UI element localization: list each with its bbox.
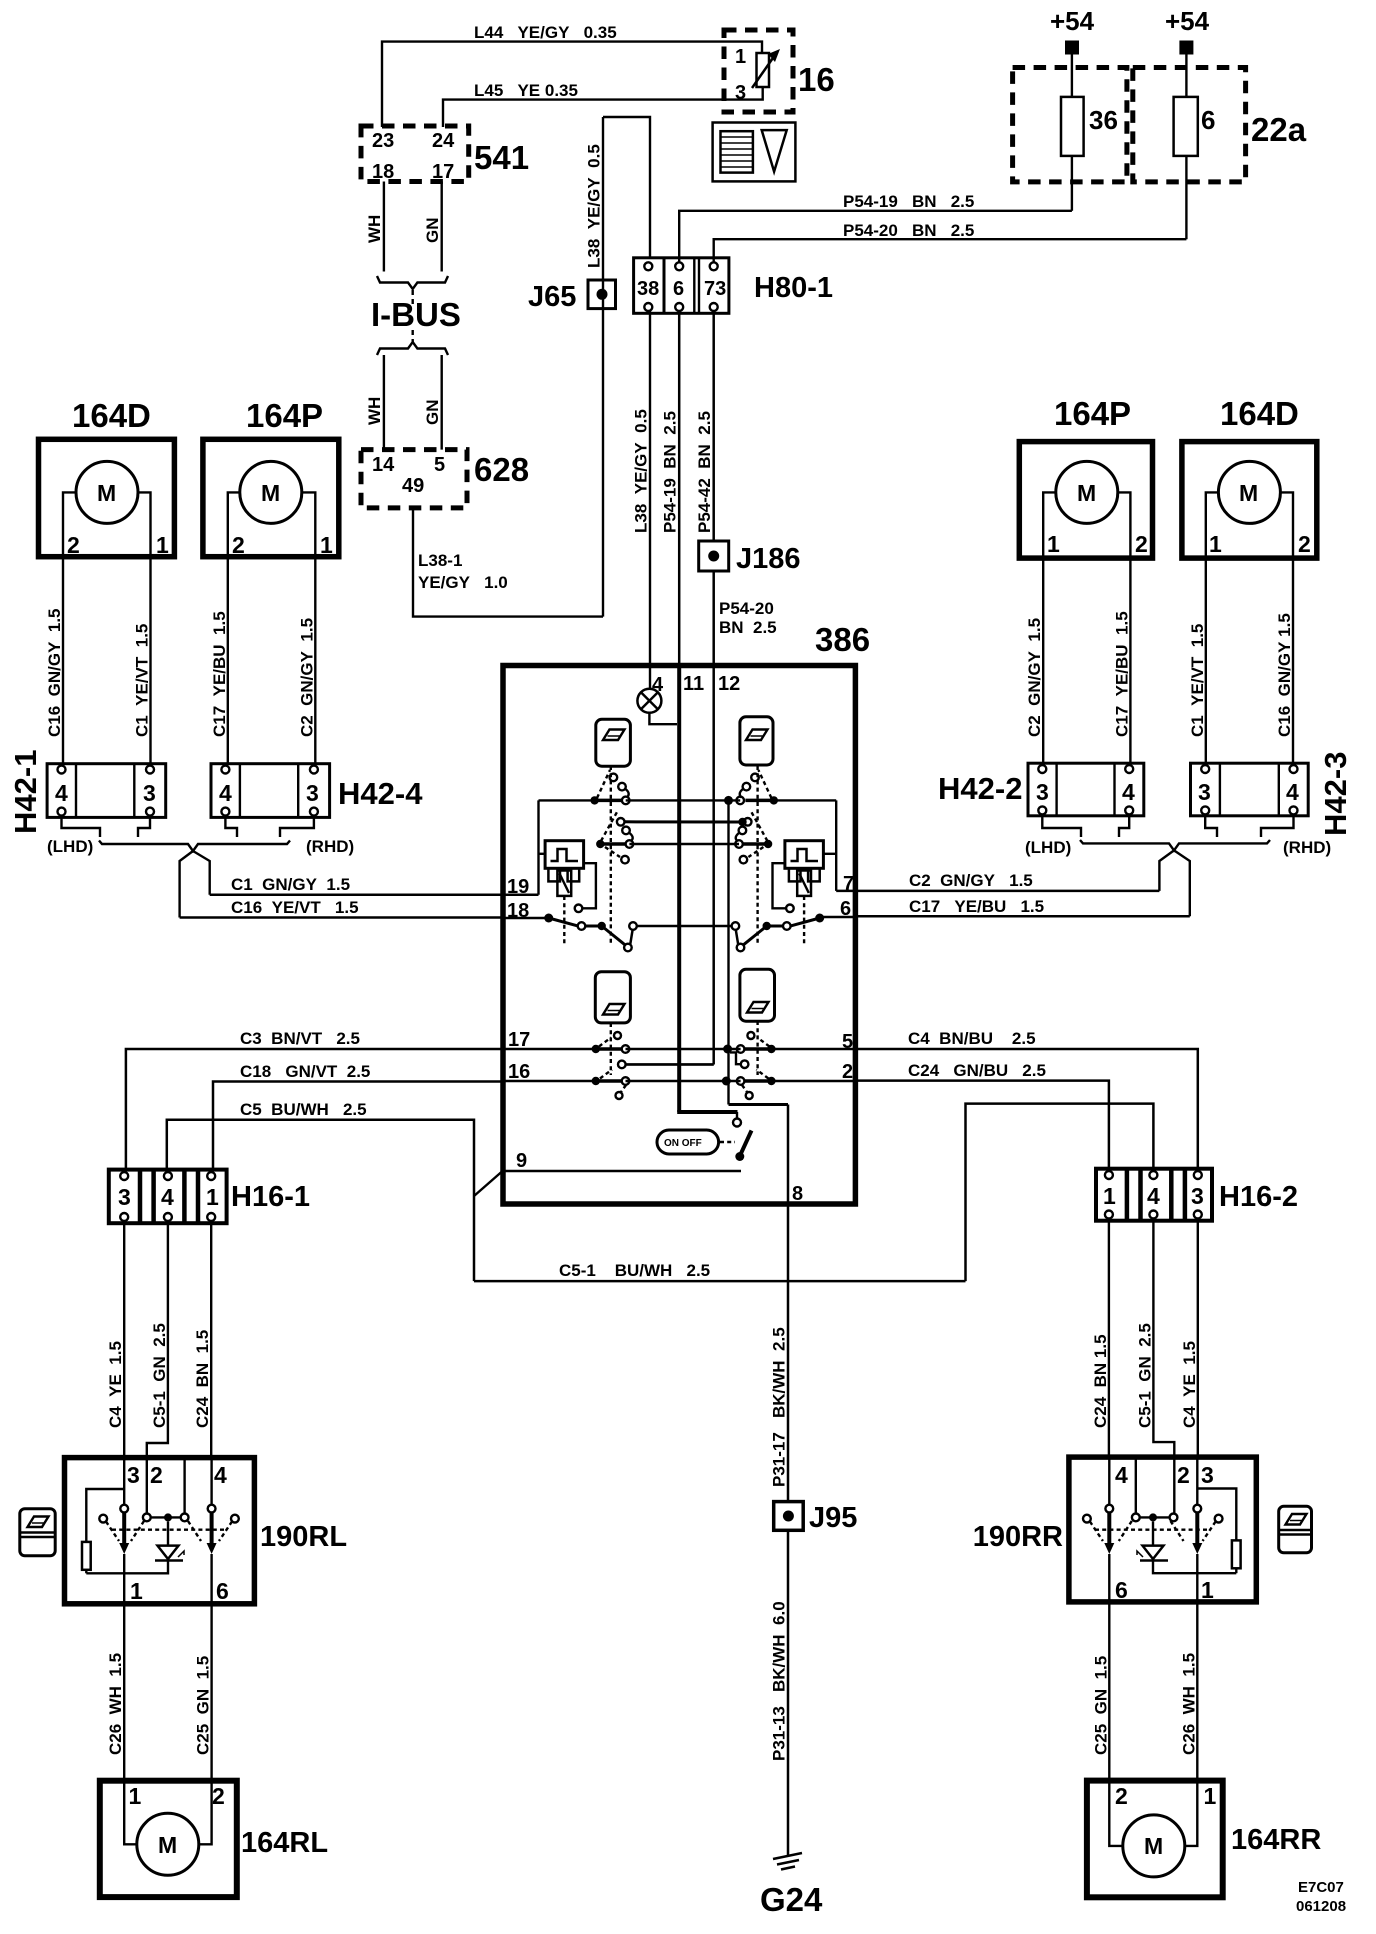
svg-text:8: 8 (792, 1183, 803, 1205)
switch cluster upper-right (passenger window up/down) (735, 766, 778, 946)
wire stubs under H42-1 / H42-4 (LHD/RHD merge) (47, 816, 354, 918)
svg-text:1: 1 (130, 1578, 143, 1604)
wire C5-1 GN 2.5 (H16-2 pin4 down) (1135, 1221, 1174, 1457)
svg-text:17: 17 (432, 161, 454, 183)
svg-text:M: M (1144, 1833, 1163, 1859)
svg-text:16: 16 (508, 1061, 530, 1083)
wire stubs under H42-2 / H42-3 (LHD/RHD merge right) (1025, 814, 1331, 916)
wire C5 BU/WH 2.5 (167, 1100, 474, 1281)
wire pin19 link (left relay feed) (505, 800, 595, 894)
svg-text:11: 11 (683, 673, 704, 695)
svg-text:17: 17 (508, 1029, 530, 1051)
wire C16 GN/GY 1.5 (164D right pin2) (1275, 558, 1294, 764)
relay right (one-touch module) (785, 841, 824, 944)
wire P31-17 BK/WH 2.5 (386 pin8 to J95) (770, 1202, 789, 1502)
switch cluster lower-right (rear-right window) (730, 1021, 776, 1099)
wire P54-20 BN 2.5 (J186 to 386 pin12) (714, 571, 777, 666)
junction J95 (774, 1502, 858, 1534)
svg-text:C25 GN 1.5: C25 GN 1.5 (194, 1656, 213, 1755)
fuse 6 (1174, 97, 1216, 239)
svg-text:C1 YE/VT 1.5: C1 YE/VT 1.5 (1188, 624, 1207, 737)
svg-text:C25 GN 1.5: C25 GN 1.5 (1091, 1656, 1110, 1755)
svg-text:C2 GN/GY 1.5: C2 GN/GY 1.5 (297, 618, 316, 737)
svg-text:P54-19 BN 2.5: P54-19 BN 2.5 (843, 192, 974, 211)
svg-text:P54-20: P54-20 (719, 599, 774, 618)
svg-text:3: 3 (1201, 1462, 1214, 1488)
svg-text:2: 2 (1177, 1462, 1190, 1488)
svg-text:C16 YE/VT 1.5: C16 YE/VT 1.5 (231, 898, 359, 917)
ON/OFF switch (657, 1112, 752, 1161)
svg-text:C5-1 GN 2.5: C5-1 GN 2.5 (1135, 1323, 1154, 1428)
connector H80-1 (634, 258, 833, 314)
svg-text:J95: J95 (809, 1502, 857, 1534)
svg-text:190RR: 190RR (973, 1521, 1063, 1553)
wire P54-19 BN 2.5 (679, 192, 1072, 262)
svg-text:4: 4 (161, 1184, 174, 1210)
wire C1 YE/VT 1.5 (164D pin1) (133, 557, 152, 765)
svg-text:(RHD): (RHD) (306, 837, 354, 856)
wire C17 YE/BU 1.5 (to 386 pin6) (856, 897, 1190, 916)
wire C2 GN/GY 1.5 (164P pin1) (297, 557, 316, 765)
svg-text:628: 628 (474, 451, 529, 488)
svg-text:164D: 164D (72, 397, 151, 434)
relay left (one-touch module) (545, 841, 584, 944)
svg-text:6: 6 (1201, 105, 1215, 135)
svg-text:190RL: 190RL (260, 1521, 347, 1553)
svg-text:H16-1: H16-1 (231, 1181, 310, 1213)
wire C1 GN/GY 1.5 (to 386 pin19) (210, 875, 505, 895)
wire row pin16-pin2 (505, 1077, 856, 1086)
window symbol upper-right (740, 717, 773, 765)
svg-text:E7C07: E7C07 (1298, 1879, 1344, 1896)
wire pin16 contact link (626, 1063, 714, 1065)
wire pin12 feed (626, 666, 714, 1065)
svg-text:C17 YE/BU 1.5: C17 YE/BU 1.5 (1112, 611, 1131, 737)
svg-text:4: 4 (219, 780, 232, 806)
wire C5-1 BU/WH 2.5 (474, 1104, 1153, 1282)
svg-text:H80-1: H80-1 (754, 272, 833, 304)
switch cluster lower-left (rear-left window) (592, 1023, 630, 1099)
svg-text:6: 6 (673, 278, 684, 300)
svg-text:H42-4: H42-4 (338, 776, 423, 811)
window symbol lower-left (595, 972, 630, 1023)
svg-text:9: 9 (516, 1150, 527, 1172)
svg-text:2: 2 (1135, 531, 1148, 557)
svg-text:BN 2.5: BN 2.5 (719, 618, 777, 637)
motor 164RR (1087, 1781, 1321, 1898)
svg-text:J65: J65 (528, 281, 576, 313)
svg-text:G24: G24 (760, 1881, 823, 1918)
+54 feed right (1165, 6, 1210, 97)
wire crossover row (y800) (626, 796, 741, 805)
svg-text:1: 1 (206, 1184, 219, 1210)
rear-left switch 190RL (65, 1458, 348, 1604)
190RR lamp (LED + resistor) (1137, 1521, 1236, 1573)
svg-text:1: 1 (1204, 1783, 1217, 1809)
rear-right switch 190RR (973, 1457, 1257, 1603)
wire crossover row (y822) (625, 818, 747, 826)
190RL interior contacts (99, 1458, 239, 1554)
svg-text:386: 386 (815, 621, 870, 658)
svg-text:2: 2 (232, 532, 245, 558)
svg-text:4: 4 (214, 1462, 227, 1488)
wire C4 YE 1.5 (H16-2 pin3 down) (1180, 1221, 1199, 1457)
svg-text:P54-19 BN 2.5: P54-19 BN 2.5 (661, 411, 680, 533)
svg-text:2: 2 (150, 1462, 163, 1488)
svg-text:6: 6 (216, 1578, 229, 1604)
changeover lever right (pin 6) (732, 914, 856, 952)
wire GN (541 pin17 down) (423, 182, 442, 272)
connector 16 (dashed box) (724, 30, 835, 112)
wire common riser (to pin 8) (729, 800, 789, 1202)
svg-text:5: 5 (434, 454, 445, 476)
svg-text:164P: 164P (1054, 395, 1131, 432)
motor 164RL (100, 1781, 328, 1897)
svg-text:6: 6 (1115, 1577, 1128, 1603)
svg-text:38: 38 (637, 278, 659, 300)
svg-text:541: 541 (474, 139, 529, 176)
svg-text:C3 BN/VT 2.5: C3 BN/VT 2.5 (240, 1029, 360, 1048)
window symbol upper-left (596, 719, 631, 766)
svg-text:3: 3 (1198, 779, 1211, 805)
svg-text:1: 1 (1201, 1577, 1214, 1603)
junction J65 (528, 280, 616, 313)
wire P54-42 (H80-1 pin73 to J186) (695, 311, 714, 541)
svg-text:C5-1 BU/WH 2.5: C5-1 BU/WH 2.5 (559, 1261, 710, 1280)
svg-text:1: 1 (129, 1783, 142, 1809)
svg-text:C24 GN/BU 2.5: C24 GN/BU 2.5 (908, 1061, 1046, 1080)
svg-text:P31-13 BK/WH 6.0: P31-13 BK/WH 6.0 (770, 1601, 789, 1761)
wire relay-left contact link (575, 863, 596, 912)
svg-text:4: 4 (1286, 779, 1299, 805)
svg-text:C17 YE/BU 1.5: C17 YE/BU 1.5 (210, 611, 229, 737)
wire row pin17-pin5 (505, 1045, 856, 1054)
motor 164D (right) (1182, 395, 1317, 558)
wire relay-right contact link (773, 863, 794, 912)
wire C24 GN/BU 2.5 (856, 1061, 1109, 1169)
wire C24 BN 1.5 (H16-2 pin1 down) (1091, 1221, 1110, 1457)
svg-text:24: 24 (432, 130, 455, 152)
svg-text:C16 GN/GY 1.5: C16 GN/GY 1.5 (45, 609, 64, 738)
wire P54-20 BN 2.5 (714, 221, 1187, 262)
wire C16 YE/VT 1.5 (to 386 pin18) (180, 898, 505, 918)
resistor (190RR) (1197, 1489, 1240, 1574)
svg-text:3: 3 (735, 82, 746, 104)
connector H42-1 (8, 750, 166, 834)
svg-text:L45 YE 0.35: L45 YE 0.35 (474, 81, 578, 100)
+54 feed left (1050, 6, 1095, 97)
wire C26 WH 1.5 (190RL pin1 to motor) (106, 1604, 125, 1781)
svg-text:C26 WH 1.5: C26 WH 1.5 (106, 1653, 125, 1755)
svg-text:GN: GN (423, 218, 442, 244)
wire C25 GN 1.5 (190RR pin6 to motor) (1091, 1602, 1110, 1781)
svg-text:1: 1 (156, 532, 169, 558)
wire C4 BN/BU 2.5 (856, 1029, 1198, 1169)
wire WH (541 pin18 down) (365, 182, 384, 272)
svg-text:(LHD): (LHD) (47, 837, 93, 856)
svg-text:ON OFF: ON OFF (664, 1138, 702, 1149)
svg-text:GN: GN (423, 400, 442, 426)
svg-text:C18 GN/VT 2.5: C18 GN/VT 2.5 (240, 1062, 370, 1081)
svg-text:C1 YE/VT 1.5: C1 YE/VT 1.5 (133, 624, 152, 737)
changeover lever left (pin 18) (505, 914, 637, 952)
svg-text:P31-17 BK/WH 2.5: P31-17 BK/WH 2.5 (770, 1327, 789, 1487)
svg-text:+54: +54 (1050, 6, 1095, 36)
svg-text:2: 2 (67, 532, 80, 558)
svg-text:1: 1 (1047, 531, 1060, 557)
wire C16 GN/GY 1.5 (164D pin2) (45, 557, 64, 765)
motor 164P (right pair) (1019, 395, 1152, 558)
wire C1 YE/VT 1.5 (164D right pin1) (1188, 558, 1207, 764)
wire pin9 row (505, 1170, 741, 1173)
svg-text:+54: +54 (1165, 6, 1210, 36)
window symbol (190RR) (1279, 1506, 1312, 1553)
wire (top link to pin 38) (603, 117, 650, 259)
junction J186 (699, 541, 801, 575)
wire L45 YE 0.35 (443, 81, 763, 127)
svg-text:3: 3 (127, 1462, 140, 1488)
svg-text:H42-3: H42-3 (1318, 752, 1353, 836)
I-BUS brace upper (377, 276, 448, 304)
svg-text:4: 4 (1122, 779, 1135, 805)
svg-text:14: 14 (372, 454, 395, 476)
svg-text:164P: 164P (246, 397, 323, 434)
svg-text:C17 YE/BU 1.5: C17 YE/BU 1.5 (909, 897, 1044, 916)
connector H42-3 (1191, 752, 1354, 836)
rheostat in 16 (752, 49, 780, 88)
wire C2 GN/GY 1.5 (164P right pin1) (1025, 558, 1044, 764)
svg-text:C24 BN 1.5: C24 BN 1.5 (1091, 1334, 1110, 1428)
svg-text:49: 49 (402, 475, 424, 497)
svg-text:P54-42 BN 2.5: P54-42 BN 2.5 (695, 411, 714, 533)
svg-text:3: 3 (1191, 1183, 1204, 1209)
svg-text:L44 YE/GY 0.35: L44 YE/GY 0.35 (474, 23, 617, 42)
svg-text:J186: J186 (736, 543, 801, 575)
svg-text:3: 3 (1036, 779, 1049, 805)
svg-text:M: M (1077, 480, 1096, 506)
drawing number (1296, 1879, 1346, 1915)
wire P54-19 (H80-1 pin6 to 386 pin11) (661, 311, 680, 666)
svg-text:(LHD): (LHD) (1025, 838, 1071, 857)
svg-text:H16-2: H16-2 (1219, 1181, 1298, 1213)
svg-text:C16 GN/GY 1.5: C16 GN/GY 1.5 (1275, 613, 1294, 737)
svg-text:C5-1 GN 2.5: C5-1 GN 2.5 (150, 1323, 169, 1428)
wire L38-1 YE/GY 1.0 (628 pin49 to J65 line) (413, 508, 603, 617)
svg-text:C4 YE 1.5: C4 YE 1.5 (1180, 1341, 1199, 1428)
svg-text:3: 3 (143, 780, 156, 806)
svg-text:2: 2 (212, 1783, 225, 1809)
svg-text:P54-20 BN 2.5: P54-20 BN 2.5 (843, 221, 974, 240)
svg-text:I-BUS: I-BUS (371, 296, 461, 333)
190RR pin6/pin1 stubs (1109, 1554, 1197, 1602)
wire L38 (H80-1 pin38 to 386 pin4) (632, 311, 651, 689)
connector 628 (dashed box) (361, 450, 529, 508)
svg-text:H42-1: H42-1 (8, 750, 43, 834)
svg-text:4: 4 (1147, 1183, 1160, 1209)
wire pin7 link (right relay feed) (774, 800, 856, 891)
svg-text:36: 36 (1089, 105, 1118, 135)
connector H42-4 (211, 764, 423, 818)
svg-text:C5 BU/WH 2.5: C5 BU/WH 2.5 (240, 1100, 367, 1119)
wire C5-1 GN 2.5 (H16-1 pin4 down) (147, 1223, 169, 1457)
switch unit 386 box (503, 621, 870, 1204)
wire C18 GN/VT 2.5 (213, 1062, 505, 1170)
motor 164D (front left) (39, 397, 175, 558)
wire WH (to 628 pin14) (365, 355, 384, 450)
190RL lamp (LED + resistor) (86, 1521, 184, 1573)
svg-text:1: 1 (1103, 1183, 1116, 1209)
svg-text:L38 YE/GY 0.5: L38 YE/GY 0.5 (632, 409, 651, 533)
svg-text:YE/GY 1.0: YE/GY 1.0 (418, 573, 508, 592)
wire C25 GN 1.5 (190RL pin6 to motor) (194, 1604, 213, 1781)
svg-text:C4 YE 1.5: C4 YE 1.5 (106, 1341, 125, 1428)
motor 164P (front passenger, left pair) (203, 397, 339, 558)
svg-text:2: 2 (1298, 531, 1311, 557)
svg-text:C24 BN 1.5: C24 BN 1.5 (193, 1330, 212, 1428)
svg-text:WH: WH (365, 215, 384, 243)
svg-text:M: M (261, 480, 280, 506)
wire C17 YE/BU 1.5 (164P right pin2) (1112, 558, 1131, 764)
svg-text:7: 7 (843, 873, 854, 895)
svg-text:73: 73 (704, 278, 726, 300)
wire pin9 tap (diagonal) (474, 1172, 502, 1197)
connector H16-1 (109, 1170, 310, 1224)
wire crossover row (y926) (637, 925, 732, 927)
190RL pin1/pin6 stubs (124, 1554, 211, 1604)
svg-text:061208: 061208 (1296, 1898, 1346, 1915)
wire L38 YE/GY 0.5 (vertical through J65) (585, 117, 604, 617)
svg-text:164D: 164D (1220, 395, 1299, 432)
svg-text:19: 19 (507, 876, 529, 898)
svg-text:2: 2 (842, 1061, 853, 1083)
switch cluster upper-left (driver window up/down) (590, 766, 633, 946)
svg-text:18: 18 (372, 161, 394, 183)
svg-text:1: 1 (320, 532, 333, 558)
wire C2 GN/GY 1.5 (to 386 pin7) (856, 871, 1159, 891)
I-BUS brace lower (377, 330, 448, 355)
svg-text:C2 GN/GY 1.5: C2 GN/GY 1.5 (909, 871, 1033, 890)
svg-text:C26 WH 1.5: C26 WH 1.5 (1179, 1653, 1198, 1755)
svg-text:WH: WH (365, 397, 384, 425)
wire crossover row (y844) (629, 843, 739, 845)
svg-text:2: 2 (1115, 1783, 1128, 1809)
svg-text:C1 GN/GY 1.5: C1 GN/GY 1.5 (231, 875, 350, 894)
svg-text:M: M (158, 1832, 177, 1858)
svg-text:22a: 22a (1251, 111, 1307, 148)
svg-text:C4 BN/BU 2.5: C4 BN/BU 2.5 (908, 1029, 1036, 1048)
svg-text:12: 12 (718, 673, 740, 695)
window lift symbol (legend) (713, 123, 796, 182)
illumination lamp (pin 4) (637, 689, 677, 724)
190RR interior contacts (1083, 1457, 1223, 1554)
wire C4 YE 1.5 (H16-1 pin3 down) (106, 1223, 125, 1457)
wire C24 BN 1.5 (H16-1 pin1 down) (193, 1223, 212, 1457)
connector H42-2 (938, 763, 1144, 816)
svg-text:164RL: 164RL (241, 1827, 328, 1859)
wire pin11 feed (thick vertical) (677, 666, 737, 1112)
window symbol (190RL) (20, 1509, 55, 1556)
svg-text:1: 1 (735, 46, 746, 68)
wire GN (to 628 pin5) (423, 355, 442, 450)
wire P31-13 BK/WH 6.0 (J95 to ground) (770, 1530, 789, 1855)
connector 541 (dashed box) (361, 126, 529, 183)
wire C26 WH 1.5 (190RR pin1 to motor) (1179, 1602, 1198, 1781)
svg-text:H42-2: H42-2 (938, 771, 1022, 806)
svg-text:4: 4 (1115, 1462, 1128, 1488)
svg-text:164RR: 164RR (1231, 1824, 1321, 1856)
svg-text:C2 GN/GY 1.5: C2 GN/GY 1.5 (1025, 618, 1044, 737)
svg-text:M: M (97, 480, 116, 506)
resistor (190RL) (82, 1489, 124, 1573)
fuse 36 (1061, 97, 1118, 211)
fusebox 22a (1013, 68, 1307, 182)
svg-text:(RHD): (RHD) (1283, 838, 1331, 857)
connector H16-2 (1096, 1169, 1298, 1221)
svg-text:L38 YE/GY 0.5: L38 YE/GY 0.5 (585, 144, 604, 268)
wire C3 BN/VT 2.5 (126, 1029, 505, 1170)
svg-text:M: M (1239, 480, 1258, 506)
wire C17 YE/BU 1.5 (164P pin2) (210, 557, 229, 765)
svg-text:1: 1 (1209, 531, 1222, 557)
ground G24 (760, 1853, 823, 1918)
svg-text:L38-1: L38-1 (418, 551, 462, 570)
svg-text:16: 16 (798, 61, 835, 98)
svg-text:4: 4 (55, 780, 68, 806)
svg-text:3: 3 (306, 780, 319, 806)
window symbol lower-right (740, 969, 775, 1021)
wire L44 YE/GY 0.35 (382, 23, 762, 127)
svg-text:23: 23 (372, 130, 394, 152)
svg-text:3: 3 (118, 1184, 131, 1210)
